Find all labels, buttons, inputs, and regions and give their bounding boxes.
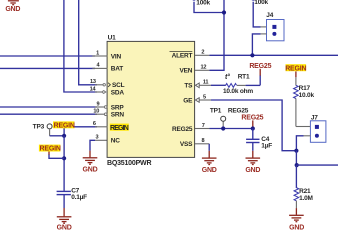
wire SDA net (vertical from top edge, then to pin 14) [64, 0, 97, 92]
wire RT1 to REG25 flag [259, 75, 261, 85]
svg-text:2: 2 [201, 50, 204, 56]
pin 8 VSS [180, 138, 209, 148]
wire C4 to ground [252, 143, 254, 151]
pin 7 REG25 [172, 123, 210, 133]
wire VEN net vertical [210, 0, 225, 70]
svg-text:100k: 100k [254, 0, 268, 6]
pin 10 SRN [93, 109, 124, 119]
wire BAT net to left edge [0, 67, 95, 69]
svg-text:BQ35100PWR: BQ35100PWR [107, 160, 151, 167]
node junction ALERT / J4 [250, 53, 254, 57]
svg-text:1µF: 1µF [261, 143, 272, 150]
svg-text:13: 13 [90, 79, 96, 85]
svg-text:REGIN: REGIN [54, 123, 75, 130]
pin 5 GE (input) [183, 94, 211, 104]
resistor 100k pull-up (VEN net, clipped at top) [192, 0, 224, 13]
svg-text:6: 6 [93, 121, 96, 127]
connector J4 [266, 12, 284, 41]
wire REG25 net from pin 7 [210, 128, 253, 130]
node junction C4 / REG25 [251, 126, 255, 130]
pin 11 TS (input) [184, 80, 211, 90]
net label REGIN (at TP3) [53, 121, 75, 129]
IC U1 BQ35100PWR body [107, 35, 195, 168]
svg-text:GND: GND [5, 6, 20, 13]
wire VIN net to left edge [0, 55, 95, 57]
svg-text:7: 7 [202, 123, 205, 129]
power flag REGIN (top right) [285, 64, 306, 77]
svg-text:GND: GND [57, 224, 72, 231]
ground GND below VSS [202, 158, 217, 174]
svg-text:11: 11 [203, 80, 209, 86]
wire VSS pin 8 to ground [208, 144, 210, 151]
ground GND below C7 [57, 217, 72, 232]
wire TP3 to REGIN net [50, 135, 65, 137]
ground GND below C4 [245, 158, 260, 174]
wire REG25 down to C4 [252, 129, 254, 140]
svg-text:VSS: VSS [180, 141, 193, 148]
ground GND top-left (partially cut off) [5, 1, 20, 13]
svg-text:REG25: REG25 [228, 108, 249, 115]
svg-text:U1: U1 [108, 35, 116, 42]
svg-text:9: 9 [97, 101, 100, 107]
wire SRP net to left edge [0, 106, 97, 108]
wire GE net to J7 junction [211, 100, 296, 151]
wire SCL net (vertical from top edge, then to pin 13) [79, 0, 97, 85]
svg-text:NC: NC [111, 138, 120, 145]
svg-text:GND: GND [289, 225, 304, 232]
pin 9 SRP [95, 101, 124, 111]
capacitor C4 [246, 136, 272, 150]
svg-text:REGIN: REGIN [110, 125, 129, 132]
ground GND at NC [83, 158, 98, 174]
capacitor C7 [57, 187, 88, 201]
svg-text:GE: GE [183, 97, 193, 104]
svg-text:TS: TS [184, 83, 193, 90]
svg-text:5: 5 [203, 94, 206, 100]
svg-text:1.0M: 1.0M [299, 195, 313, 202]
wire R17 to J7 pin 1 [296, 126, 311, 128]
svg-text:TP1: TP1 [210, 108, 222, 115]
svg-text:R21: R21 [299, 188, 311, 195]
pin 12 VEN [180, 65, 210, 75]
pin 1 VIN [92, 50, 121, 60]
power flag REGIN (left) [39, 145, 64, 159]
svg-text:ALERT: ALERT [172, 53, 193, 60]
pin 4 BAT [92, 63, 123, 73]
svg-text:J4: J4 [266, 12, 273, 19]
pin 14 SDA (bidirectional) [90, 86, 125, 96]
thermistor RT1 10.0k [211, 73, 260, 95]
node junction VEN / pull-up [222, 10, 226, 14]
svg-text:BAT: BAT [111, 66, 124, 73]
wire node to R21 node [295, 151, 297, 165]
wire ALERT net to right edge [210, 54, 338, 56]
power flag REG25 (at RT1) [249, 63, 271, 75]
svg-text:100k: 100k [196, 0, 210, 6]
svg-text:REGIN: REGIN [40, 146, 61, 153]
pin 2 ALERT (active low) [170, 50, 210, 60]
svg-text:REG25: REG25 [172, 126, 193, 133]
wire J7 pin 2 down to node [304, 135, 311, 137]
svg-text:SRN: SRN [111, 112, 125, 119]
svg-text:t°: t° [225, 73, 230, 81]
node junction TP1 / REG25 [221, 126, 225, 130]
resistor R21 1.0M [294, 165, 313, 208]
svg-text:TP3: TP3 [33, 124, 45, 131]
svg-text:3: 3 [95, 135, 98, 141]
node junction TP3 / REGIN [62, 134, 66, 138]
wire SRN net to left edge [0, 113, 97, 115]
test point TP3 [33, 124, 52, 136]
svg-text:REG25: REG25 [249, 63, 271, 70]
svg-text:12: 12 [200, 65, 206, 71]
svg-text:GND: GND [83, 167, 98, 174]
pin 3 NC [95, 135, 120, 145]
resistor R17 10.0k [294, 77, 315, 126]
test point TP1 [210, 108, 249, 127]
svg-text:0.1µF: 0.1µF [71, 194, 87, 201]
svg-text:10.0k: 10.0k [299, 92, 315, 99]
connector J7 [310, 115, 326, 143]
svg-text:REGIN: REGIN [285, 65, 306, 72]
svg-text:SRP: SRP [111, 104, 125, 111]
svg-text:RT1: RT1 [238, 73, 250, 80]
resistor 100k pull-up (ALERT net, clipped at top) [251, 0, 269, 27]
wire R21 to ground [295, 208, 297, 215]
node junction GE / J7 [294, 149, 298, 153]
wire REGIN net to pin 6 [64, 127, 97, 136]
svg-text:1: 1 [96, 50, 99, 56]
svg-text:SCL: SCL [112, 82, 125, 89]
svg-text:GND: GND [245, 167, 260, 174]
wire J4 pin 2 to ALERT net [261, 33, 267, 35]
svg-text:SDA: SDA [111, 89, 125, 96]
pin 13 SCL (clock) [90, 79, 125, 89]
svg-text:GND: GND [202, 167, 217, 174]
svg-text:VIN: VIN [111, 53, 122, 60]
pin 6 REGIN (highlighted) [93, 121, 129, 132]
svg-text:10.0k ohm: 10.0k ohm [223, 88, 253, 95]
power flag REG25 (at C4) [241, 115, 263, 127]
wire REGIN vertical down to C7 [63, 136, 65, 191]
wire NC pin 3 to ground [95, 139, 108, 141]
node junction R21 / right wire [295, 163, 299, 167]
node junction at REGIN power flag [62, 156, 66, 160]
ground GND below R21 [289, 215, 304, 231]
svg-text:VEN: VEN [180, 68, 193, 75]
wire C7 to ground [63, 195, 65, 208]
wire to right edge [297, 164, 338, 166]
svg-text:10: 10 [93, 109, 99, 115]
svg-text:8: 8 [202, 138, 205, 144]
svg-text:R17: R17 [299, 85, 311, 92]
